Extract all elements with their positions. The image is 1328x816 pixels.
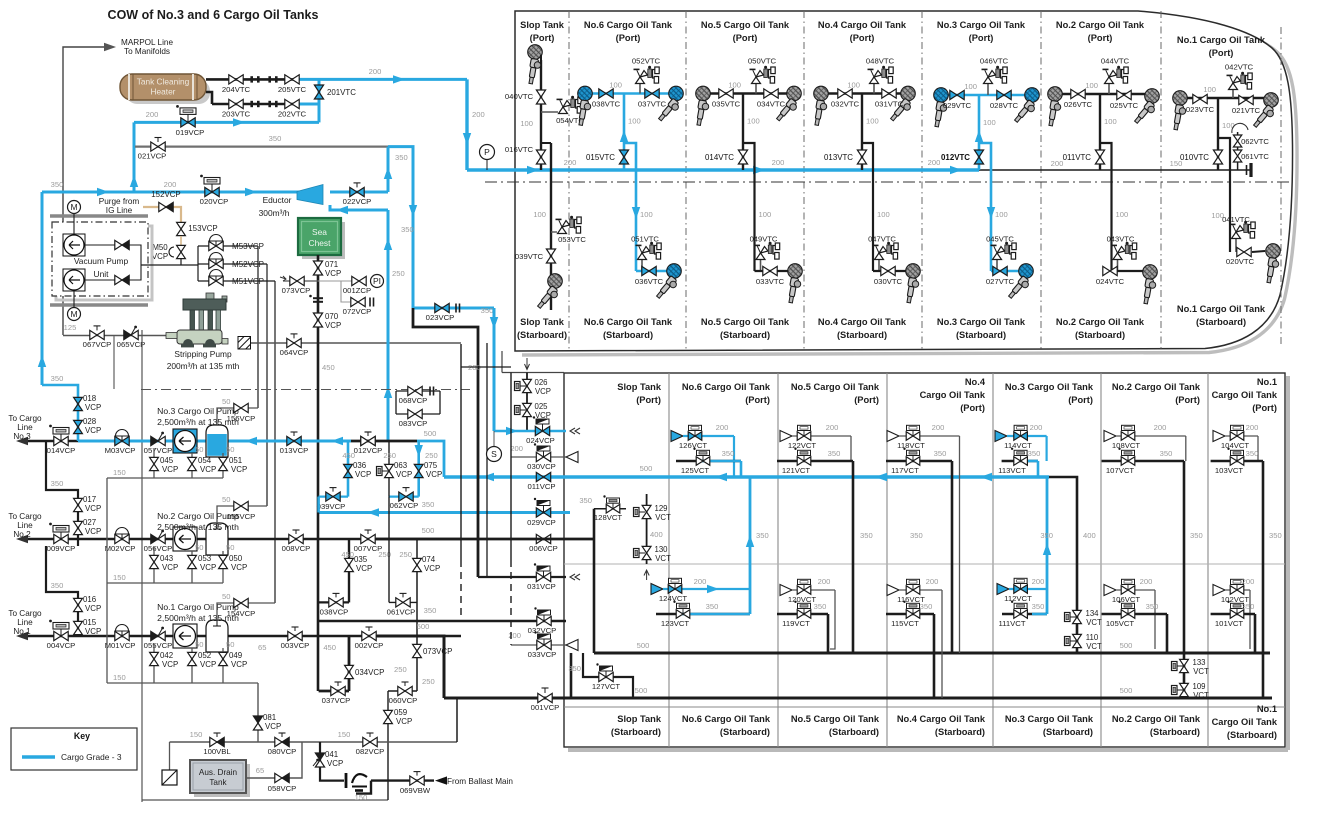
valve 038VCP: [319, 601, 349, 603]
valve 053VCP: [191, 551, 193, 583]
No.4 200b drop: [941, 590, 943, 698]
svg-text:No.6 Cargo Oil Tank: No.6 Cargo Oil Tank: [584, 20, 673, 30]
valve 116VCT: [899, 589, 942, 591]
valve 124VCT: [663, 588, 750, 590]
svg-text:059: 059: [394, 708, 408, 717]
key box: [11, 728, 137, 770]
svg-text:250: 250: [394, 665, 407, 674]
cross pipe port 014: [703, 92, 794, 94]
svg-text:VCT: VCT: [655, 513, 671, 522]
svg-text:(Starboard): (Starboard): [1227, 730, 1277, 740]
valve 123VCT: [656, 613, 750, 616]
svg-text:Purge from: Purge from: [99, 197, 140, 206]
svg-text:350: 350: [706, 602, 719, 611]
svg-text:(Port): (Port): [1209, 48, 1234, 58]
svg-text:041VTC: 041VTC: [1222, 215, 1250, 224]
valve 025VCP: [515, 406, 527, 415]
svg-text:50: 50: [226, 445, 234, 454]
valve 060VCP: [402, 682, 409, 686]
svg-text:VCP: VCP: [325, 269, 341, 278]
sea suction pipe: [317, 255, 320, 691]
elbow 200 No.3: [1045, 436, 1047, 461]
svg-text:Slop Tank: Slop Tank: [617, 382, 662, 392]
svg-text:200: 200: [1154, 423, 1167, 432]
svg-text:002VCP: 002VCP: [355, 641, 384, 650]
ballast drain elbow: [356, 781, 371, 794]
main COW supply line (blue 200): [467, 168, 979, 171]
valve 050VCP: [222, 551, 224, 583]
S sensor: [493, 431, 495, 446]
valve 073VCP: [290, 276, 304, 285]
No.4 350b drop: [933, 614, 936, 698]
036VCP riser: [347, 441, 350, 497]
svg-text:080VCP: 080VCP: [268, 747, 297, 756]
vent triangle 033VCP: [566, 640, 578, 651]
valve 045VCP: [153, 449, 155, 478]
svg-text:129: 129: [654, 504, 667, 513]
hull outline top deck: [515, 11, 1293, 351]
ship centerline (top grid): [485, 181, 1292, 183]
valve 203VTC: [229, 99, 243, 108]
valve 017VCP: [74, 498, 83, 511]
svg-text:200: 200: [694, 577, 707, 586]
No.3 pump title: [157, 406, 239, 416]
svg-text:150: 150: [113, 673, 126, 682]
valve 102VCT: [1225, 589, 1250, 591]
slop riser: [593, 509, 596, 653]
valve 032VTC: [838, 89, 852, 98]
154VCP line 50: [217, 603, 275, 620]
gray drop from 125 line: [113, 336, 115, 389]
valve 027VCP: [74, 521, 83, 534]
svg-text:028VTC: 028VTC: [990, 101, 1019, 110]
058VCP line: [246, 742, 302, 778]
jog to starboard No.1: [1218, 138, 1230, 252]
svg-text:100VBL: 100VBL: [203, 747, 231, 756]
svg-text:To Manifolds: To Manifolds: [124, 47, 170, 56]
trunk outline horizontal: [502, 372, 564, 374]
svg-text:VCP: VCP: [85, 527, 101, 536]
svg-text:VCP: VCP: [85, 426, 101, 435]
valve 122VCT: [792, 435, 851, 437]
slop starboard pipe: [550, 143, 552, 310]
No.2 cargo oil pump line suction main: [28, 538, 78, 541]
svg-text:350: 350: [579, 496, 592, 505]
svg-text:No.2 Cargo Oil Tank: No.2 Cargo Oil Tank: [1112, 714, 1201, 724]
No.1 350 drop: [1262, 461, 1265, 698]
svg-text:350: 350: [722, 449, 735, 458]
pressure gauge P: [486, 160, 488, 170]
svg-text:(Port): (Port): [854, 395, 879, 405]
flow arrow No.3 riser: [1043, 543, 1051, 555]
svg-text:350: 350: [860, 531, 873, 540]
svg-text:125: 125: [64, 323, 77, 332]
valve 041VCP: [315, 753, 324, 767]
tank bulkhead separator: [1040, 11, 1042, 351]
cross pipe port 011: [1055, 93, 1152, 95]
svg-text:VCP: VCP: [325, 321, 341, 330]
156VCP line 50: [217, 408, 258, 425]
svg-text:No.4 Cargo Oil Tank: No.4 Cargo Oil Tank: [818, 20, 907, 30]
No.3 riser 350 blue: [1046, 477, 1049, 614]
svg-text:VCP: VCP: [426, 470, 442, 479]
valve 008VCP: [293, 530, 300, 534]
arrow 024VCP: [506, 427, 518, 435]
valve 026VTC: [1071, 89, 1085, 98]
svg-text:100: 100: [628, 117, 641, 126]
bottom tank title No.5 Cargo Oil Tank port: [791, 382, 880, 392]
svg-text:50: 50: [222, 592, 230, 601]
svg-text:No.1: No.1: [1257, 377, 1277, 387]
svg-text:350: 350: [401, 225, 414, 234]
valve 011VCP: [536, 472, 550, 481]
svg-text:012VTC: 012VTC: [941, 153, 970, 162]
svg-text:Line: Line: [17, 423, 33, 432]
svg-text:M: M: [70, 309, 77, 319]
svg-text:VCT: VCT: [1193, 691, 1209, 700]
No.4 350 drop: [951, 461, 954, 653]
svg-text:150: 150: [113, 468, 126, 477]
svg-text:50: 50: [222, 397, 230, 406]
svg-text:068VCP: 068VCP: [399, 396, 428, 405]
pipe size 100: [520, 119, 533, 128]
svg-text:P: P: [484, 147, 490, 157]
svg-text:VCP: VCP: [424, 564, 440, 573]
tank bulkhead separator: [568, 11, 570, 351]
flow arrow No.6 down to starboard: [632, 207, 640, 219]
svg-text:VCT: VCT: [1086, 642, 1102, 651]
svg-text:125VCT: 125VCT: [681, 466, 710, 475]
tank cleaning machine port left: [813, 86, 828, 126]
svg-text:No.1 Cargo Oil Tank: No.1 Cargo Oil Tank: [1177, 304, 1266, 314]
svg-text:350: 350: [1032, 602, 1045, 611]
svg-text:057VCP: 057VCP: [144, 446, 173, 455]
svg-text:100: 100: [533, 210, 546, 219]
relief assembly 053VTC: [551, 231, 557, 233]
valve 007VCP: [365, 530, 372, 534]
valve 061VCP pump area: [389, 601, 417, 603]
svg-text:VCP: VCP: [200, 465, 216, 474]
drain header: [107, 582, 223, 584]
svg-text:VCT: VCT: [655, 554, 671, 563]
valve 023VTC: [1193, 94, 1207, 103]
svg-text:062VTC: 062VTC: [1241, 137, 1269, 146]
elbow 113VCT to main: [1037, 461, 1040, 477]
svg-text:122VCT: 122VCT: [788, 441, 817, 450]
svg-text:031VTC: 031VTC: [875, 100, 904, 109]
M valves manifold: [197, 246, 199, 281]
vent arrow glyph: [525, 358, 530, 370]
svg-text:200: 200: [772, 158, 785, 167]
svg-text:VCP: VCP: [200, 563, 216, 572]
line 033VCP: [511, 644, 566, 646]
svg-text:No.6 Cargo Oil Tank: No.6 Cargo Oil Tank: [584, 317, 673, 327]
svg-text:50: 50: [226, 543, 234, 552]
valve 121VCT: [777, 460, 853, 463]
svg-text:No.3 Cargo Oil Tank: No.3 Cargo Oil Tank: [1005, 714, 1094, 724]
svg-text:100: 100: [847, 81, 860, 90]
svg-text:MARPOL Line: MARPOL Line: [121, 38, 173, 47]
svg-text:056VCP: 056VCP: [144, 544, 173, 553]
svg-text:134: 134: [1085, 609, 1099, 618]
bottom tank title No.1 port: [1257, 377, 1277, 387]
valve M01VCP: [116, 625, 129, 637]
valve 128VCT: [594, 508, 626, 510]
valve 113VCT: [1002, 460, 1038, 463]
svg-text:019VCP: 019VCP: [176, 128, 205, 137]
svg-text:No.4 Cargo Oil Tank: No.4 Cargo Oil Tank: [897, 714, 986, 724]
svg-text:50: 50: [222, 495, 230, 504]
svg-text:Aus. Drain: Aus. Drain: [199, 768, 238, 777]
bottom grid separator: [1207, 373, 1209, 747]
svg-text:VCT: VCT: [1086, 618, 1102, 627]
valve 042VCP: [153, 644, 155, 683]
tank title No.4 Cargo Oil Tank (Port): [818, 20, 907, 30]
bottom grid separator: [1100, 373, 1102, 747]
valve 127VCT: [583, 653, 633, 698]
valve 119VCT: [777, 613, 828, 616]
elbow 120VCT: [830, 590, 835, 649]
svg-text:026VTC: 026VTC: [1064, 100, 1093, 109]
svg-text:Cargo Oil Tank: Cargo Oil Tank: [920, 390, 986, 400]
svg-text:042VTC: 042VTC: [1225, 63, 1254, 72]
vertical thin 511: [510, 373, 512, 561]
valve 022VCP: [354, 183, 361, 188]
valve 029VTC: [950, 90, 964, 99]
relief assembly 054VTC: [541, 111, 558, 113]
001ZCP line: [318, 280, 352, 282]
relief assembly 043VTC: [1117, 260, 1119, 272]
svg-text:041: 041: [325, 750, 338, 759]
vertical thin 511 dashed lower: [510, 560, 512, 645]
valve 014VCP: [49, 425, 69, 441]
svg-text:350: 350: [1246, 449, 1259, 458]
svg-text:016: 016: [83, 595, 97, 604]
valve 028VCP: [74, 420, 83, 433]
svg-text:115VCT: 115VCT: [891, 619, 919, 628]
068/083 left link: [395, 391, 397, 414]
riser pipe port: [1099, 94, 1101, 170]
arrow 020 line 2: [245, 188, 257, 196]
041VCP drop: [320, 742, 344, 781]
svg-text:350: 350: [1040, 531, 1053, 540]
valve 028VTC: [997, 90, 1011, 99]
svg-text:Slop Tank: Slop Tank: [617, 714, 662, 724]
svg-text:029VCP: 029VCP: [527, 518, 556, 527]
svg-text:201VTC: 201VTC: [327, 88, 356, 97]
svg-text:014VCP: 014VCP: [47, 446, 76, 455]
svg-text:No.5 Cargo Oil Tank: No.5 Cargo Oil Tank: [791, 382, 880, 392]
svg-text:127VCT: 127VCT: [592, 682, 621, 691]
valve 155VCP: [234, 501, 248, 510]
svg-text:027: 027: [83, 518, 96, 527]
svg-text:062VCP: 062VCP: [390, 501, 419, 510]
svg-text:200: 200: [932, 423, 945, 432]
valve M03VCP: [116, 430, 129, 441]
svg-text:VCP: VCP: [396, 717, 412, 726]
svg-text:039VCP: 039VCP: [317, 502, 346, 511]
tank cleaning machine starboard: [1142, 265, 1157, 305]
svg-text:020VCP: 020VCP: [200, 197, 229, 206]
valve 068VCP: [408, 386, 422, 395]
motor M top: [68, 201, 81, 214]
valve 120VCT: [792, 589, 835, 591]
tank cleaning machine port right: [1252, 93, 1278, 131]
M51 drop line: [274, 281, 276, 603]
svg-text:023VCP: 023VCP: [426, 313, 455, 322]
svg-text:040VTC: 040VTC: [505, 92, 534, 101]
valve 069VBW: [410, 776, 424, 785]
pipe size 100 port: [847, 81, 860, 90]
tank cleaning machine No.1 starboard: [1265, 244, 1280, 284]
starboard pipe size 100: [759, 210, 772, 219]
svg-text:153VCP: 153VCP: [188, 224, 217, 233]
svg-text:150: 150: [190, 730, 203, 739]
elbow 200 No.2: [1185, 436, 1187, 461]
vacuum unit bottom bar: [50, 303, 148, 307]
svg-text:350: 350: [910, 531, 923, 540]
valve 104VCT: [1225, 435, 1258, 437]
starboard pipe size 100: [995, 210, 1008, 219]
arrow suction riser 1: [384, 238, 392, 250]
bellmouth No.6 starboard: [651, 584, 663, 595]
valve 101VCT: [1211, 613, 1255, 616]
svg-text:(Starboard): (Starboard): [1150, 727, 1200, 737]
svg-text:009VCP: 009VCP: [47, 544, 76, 553]
tank title No.6 Cargo Oil Tank (Starboard): [584, 317, 673, 327]
svg-text:2,500m³/h at 135 mth: 2,500m³/h at 135 mth: [157, 522, 239, 532]
svg-text:074: 074: [422, 555, 436, 564]
svg-text:200: 200: [1246, 423, 1259, 432]
up arrow glyph under 130VCT: [644, 570, 649, 580]
svg-text:033VCP: 033VCP: [528, 650, 557, 659]
105VCT drop: [1166, 614, 1169, 653]
svg-text:350: 350: [934, 449, 947, 458]
line 024VCP: [494, 430, 566, 433]
valve M52VCP: [198, 263, 267, 265]
valve 071VCP: [313, 261, 322, 275]
svg-text:500: 500: [635, 686, 648, 695]
cross pipe port 010: [1180, 97, 1271, 99]
No.2 discharge continues: [376, 538, 594, 541]
svg-text:106VCT: 106VCT: [1112, 595, 1141, 604]
relief assembly 052VTC: [639, 84, 641, 94]
bottom tank title No.2 Cargo Oil Tank port: [1112, 382, 1201, 392]
svg-text:250: 250: [392, 269, 405, 278]
svg-text:VCP: VCP: [85, 604, 101, 613]
svg-text:500: 500: [1120, 641, 1133, 650]
svg-text:350: 350: [51, 180, 64, 189]
svg-text:(Port): (Port): [745, 395, 770, 405]
bottom tank title Slop Tank port: [617, 382, 662, 392]
svg-text:100: 100: [609, 81, 622, 90]
starboard pipe size 100: [640, 210, 653, 219]
svg-text:081: 081: [263, 713, 276, 722]
valve 106VCT: [1116, 589, 1155, 591]
svg-text:(Starboard): (Starboard): [935, 727, 985, 737]
svg-text:156VCP: 156VCP: [227, 414, 256, 423]
valve 054VCP: [191, 453, 193, 478]
valve 037VTC: [645, 89, 659, 98]
valve M51VCP: [198, 280, 275, 282]
valve 070VCP: [313, 313, 322, 327]
valve 031VTC: [882, 89, 896, 98]
heater top pipe: [206, 78, 296, 81]
valve 112VCT: [1009, 588, 1047, 590]
bottom grid shadow: [568, 376, 1288, 750]
No.1 cargo oil pump line filter: [206, 620, 228, 652]
svg-text:100: 100: [1104, 117, 1117, 126]
drain gooseneck: [346, 773, 367, 791]
064VCP line: [251, 342, 461, 344]
svg-text:008VCP: 008VCP: [282, 544, 311, 553]
No.6 riser 350 blue: [749, 477, 752, 614]
svg-text:200: 200: [146, 110, 159, 119]
blue drop left: [41, 192, 44, 385]
valve 024VCP: [533, 416, 549, 431]
valve 075VCP: [414, 464, 423, 477]
pipe elbow 350 No.6: [740, 461, 743, 477]
svg-text:028: 028: [83, 417, 97, 426]
MARPOL arrow: [104, 43, 116, 51]
arrow down 350: [409, 205, 417, 217]
tank title No.1 Cargo Oil Tank (Starboard): [1177, 304, 1266, 314]
flow arrow No.3 riser up: [975, 130, 983, 142]
svg-text:035VTC: 035VTC: [712, 100, 741, 109]
drain header downcomer: [106, 478, 108, 683]
svg-text:To Cargo: To Cargo: [8, 414, 42, 423]
stripping pump label: [174, 349, 232, 359]
No.3 cargo oil pump line suction main: [28, 440, 78, 443]
svg-text:015: 015: [83, 618, 97, 627]
svg-text:(Port): (Port): [960, 403, 985, 413]
svg-text:(Starboard): (Starboard): [837, 330, 887, 340]
svg-text:030VTC: 030VTC: [874, 277, 903, 286]
cross pipe port 015: [585, 92, 676, 95]
svg-text:100: 100: [964, 82, 977, 91]
svg-text:200: 200: [369, 67, 382, 76]
svg-text:033VTC: 033VTC: [756, 277, 785, 286]
svg-text:018: 018: [83, 394, 97, 403]
valve 064VCP: [291, 334, 298, 339]
svg-text:055VCP: 055VCP: [144, 641, 173, 650]
starboard pipe size 100: [877, 210, 890, 219]
tank title No.5 Cargo Oil Tank (Starboard): [701, 317, 790, 327]
svg-text:013VTC: 013VTC: [824, 153, 853, 162]
svg-text:108VCT: 108VCT: [1112, 441, 1141, 450]
svg-text:(Starboard): (Starboard): [1196, 317, 1246, 327]
tank title Slop Tank (Port): [520, 20, 565, 30]
valve 018VCP: [74, 397, 83, 410]
svg-text:133: 133: [1192, 658, 1205, 667]
MARPOL text: [121, 38, 173, 47]
bottom tank title No.3 Cargo Oil Tank port: [1005, 382, 1094, 392]
No.2 350 drop: [1183, 461, 1186, 698]
svg-text:022VCP: 022VCP: [343, 197, 372, 206]
svg-text:042: 042: [160, 651, 173, 660]
svg-text:VCP: VCP: [265, 722, 281, 731]
svg-text:045VTC: 045VTC: [986, 235, 1014, 244]
svg-text:250: 250: [383, 451, 396, 460]
motor M bottom: [68, 308, 81, 321]
relief assembly 048VTC: [873, 84, 875, 94]
hook vent symbol: [1232, 123, 1248, 133]
No.1 discharge 500: [377, 636, 444, 698]
arrow COW supply: [393, 75, 405, 83]
svg-text:No.1: No.1: [1257, 704, 1277, 714]
valve 030VTC: [873, 270, 913, 272]
flow arrow No.3 down to starboard: [987, 207, 995, 219]
